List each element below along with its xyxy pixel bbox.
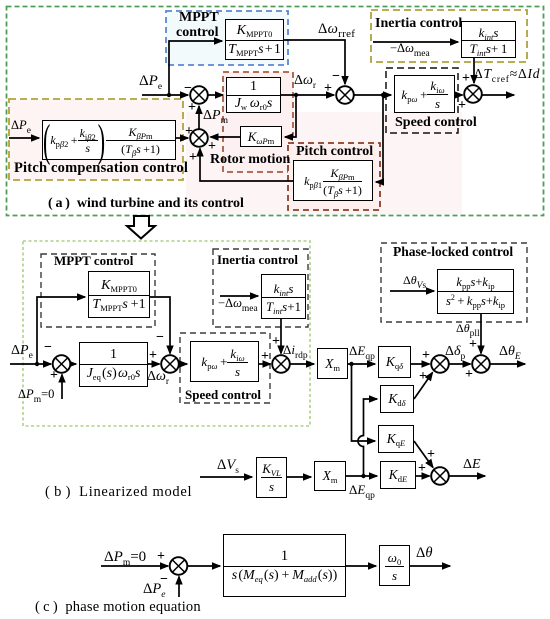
Inertia control dashed box (a) xyxy=(371,10,527,62)
wire ΔPe up into MPPT box (a) xyxy=(169,41,222,95)
sign + bottom into S2 xyxy=(189,151,197,165)
sign − ΔPe into T1 xyxy=(44,341,52,355)
box speed control kpω+kiω/s (b) xyxy=(190,341,259,382)
wire Xm upper output ΔEqp into Kqδ xyxy=(348,363,375,365)
box Xm upper (b) xyxy=(317,348,348,379)
box K_MPPT0/(T_MPPT s+1) (b) xyxy=(88,271,150,318)
outer light green dashed box section (b) xyxy=(23,241,310,426)
label Inertia control (a) xyxy=(375,17,462,31)
sign + ΔPm into T1 xyxy=(50,369,58,383)
wire ΔPe input (b) xyxy=(10,363,51,365)
junction dot Δωr branch to KωPm xyxy=(294,93,298,97)
wire T2 output into speed box (b) xyxy=(179,363,188,365)
box pitch compensation (kpβ2+kiβ2/s)KβPm/(Tβs+1) (a) xyxy=(42,120,176,160)
sum junction S2 xyxy=(190,129,208,147)
wire ΔPe input of pitch compensation xyxy=(9,137,39,139)
label ΔPm=0 (c) xyxy=(104,550,146,565)
label Speed control (b) xyxy=(185,388,261,401)
label MPPT control (a) line1 xyxy=(179,11,219,25)
label -Δω_mea (b) xyxy=(218,297,258,310)
wire Kdδ output diagonal into T4 xyxy=(414,373,433,400)
wire KVL output into Xm lower xyxy=(287,476,311,478)
sign + left into T4 xyxy=(422,349,430,363)
wire U1 output into M box (c) xyxy=(188,565,221,567)
sign + left into T3 xyxy=(261,350,269,364)
wire inertia (b) input xyxy=(220,295,258,297)
label Pitch compensation control (a) xyxy=(14,161,188,176)
sign + top into T3 xyxy=(272,335,280,349)
label MPPT control (b) xyxy=(54,254,133,267)
big hollow down arrow between sections xyxy=(127,216,155,239)
box K_MPPT0/(T_MPPT s+1) (a) xyxy=(225,19,284,60)
box 1/(Jw ωr0 s) (a) xyxy=(226,77,281,113)
sign + left into T2 xyxy=(149,349,157,363)
label Inertia control (b) xyxy=(217,253,298,266)
label Rotor motion (a) xyxy=(210,153,290,167)
wire S1 to rotor box xyxy=(208,94,224,96)
sum junction S3 xyxy=(336,86,354,104)
label Δω_r+ (a) xyxy=(294,74,316,88)
label Δθ (c) xyxy=(416,546,432,561)
sum junction T1 xyxy=(53,355,71,373)
wire KqE output diagonal into T6 xyxy=(414,441,433,468)
label -Δω_mea (a) xyxy=(390,42,430,55)
wire MPPT output Δωrref down into sum S3 xyxy=(284,40,345,84)
sign − top input S3 xyxy=(332,70,340,84)
box 1/(s(Meq(s)+Madd(s))) (c) xyxy=(223,534,346,597)
label ΔE (b) xyxy=(463,458,481,472)
wire pitch compensation output into S2 xyxy=(176,137,188,139)
junction dot ΔEqp lower branch xyxy=(361,474,365,478)
sign + top into S4 xyxy=(462,72,470,86)
wire ΔEqp lower up to Kdδ input with hop xyxy=(358,399,377,476)
sign + left into S2 xyxy=(185,125,193,139)
junction dot ΔEqp upper branch xyxy=(349,362,353,366)
wire ΔPm=0 input (c) xyxy=(101,565,168,567)
wire T6 output ΔE xyxy=(449,475,486,477)
sum junction T3 xyxy=(272,355,290,373)
sum junction S1 xyxy=(190,86,208,104)
junction dot ΔPe branch xyxy=(167,93,171,97)
wire T4 output Δδp into T5 xyxy=(449,363,471,365)
sign + lower into T4 xyxy=(419,370,427,384)
label Speed control (a) xyxy=(395,116,477,130)
box Xm lower (b) xyxy=(314,461,346,491)
box ω0/s (c) xyxy=(379,545,410,586)
wire inertia (a) output down into S4 xyxy=(473,58,475,83)
label ΔVs (b) xyxy=(217,458,239,473)
box k_int s/(T_int s+1) (b) xyxy=(261,274,306,319)
wire phase-locked output Δθpll down into T5 xyxy=(480,314,482,354)
wire Jeq output Δωr into T2 xyxy=(148,363,160,365)
box Kqδ (b) xyxy=(378,346,411,378)
sign − into U1 xyxy=(160,573,168,587)
box pitch control kpβ1 KβPm/(Tβ s+1) (a) xyxy=(293,160,373,201)
wire ΔPe main input to sum S1 xyxy=(142,94,188,96)
sum junction T6 xyxy=(431,467,449,485)
sign + into U1 xyxy=(157,550,165,564)
label ΔθVs (b) xyxy=(403,274,426,286)
wire ω box output Δθ (c) xyxy=(410,565,450,567)
wire T5 output ΔθE xyxy=(490,363,526,365)
wire Xm lower output ΔEqp into KdE xyxy=(346,475,377,477)
wire inertia (b) output down into T3 xyxy=(280,319,282,354)
label ΔPe (b) xyxy=(11,344,33,358)
wire Δωr down into KωPm input xyxy=(285,95,296,137)
wire phase-locked input ΔθVs xyxy=(390,290,434,292)
label Δθpll (b) xyxy=(456,322,480,334)
sign + right into S2 xyxy=(208,140,216,154)
sum junction T4 xyxy=(431,355,449,373)
wire M box output into ω box (c) xyxy=(346,565,376,567)
pink halo wash around rotor/pitch area xyxy=(186,112,462,214)
sign + left into S4 xyxy=(458,99,466,113)
box KqE (b) xyxy=(378,425,414,453)
sign + left into T6 xyxy=(418,462,426,476)
wire inertia control (a) input xyxy=(373,41,458,43)
label Δδp (b) xyxy=(445,345,465,359)
label ΔPm (a) xyxy=(203,109,228,123)
junction dot ΔPe branch (b) xyxy=(35,362,39,366)
Speed control dashed box (a) xyxy=(386,68,458,133)
caption (b) xyxy=(45,485,192,500)
label Phase-locked control (b) xyxy=(393,245,513,259)
label Δi_rdp (b) xyxy=(283,343,308,356)
wire ΔEqp upper down to KqE input with crossing xyxy=(352,364,376,441)
sign + upper into T6 xyxy=(427,448,435,462)
wire ΔPm=0 up into T1 xyxy=(61,375,63,400)
wire S2 output ΔPm up into S1 xyxy=(198,106,200,130)
label MPPT control (a) line2 xyxy=(176,26,219,40)
wire down into pitch control input xyxy=(376,95,383,182)
label ΔPm=0 (b) xyxy=(18,388,54,401)
label Δω_r (b) xyxy=(147,370,169,384)
wire T1 output into Jeq box xyxy=(71,363,77,365)
Rotor motion dashed box (a) xyxy=(223,72,293,172)
label ΔPe top (a) xyxy=(139,74,162,89)
sign + top into T5 xyxy=(469,338,477,352)
wire rotor box output Δωr to sum S3 xyxy=(281,94,334,96)
wire pitch control output up into S2 bottom xyxy=(200,149,293,182)
wire MPPT (b) output down into T2 xyxy=(150,297,170,354)
sign + left input S3 xyxy=(324,82,332,96)
Inertia control dashed box (b) xyxy=(213,249,308,327)
MPPT control dashed box (b) xyxy=(41,254,155,327)
sum junction U1 xyxy=(170,557,188,575)
box KdE (b) xyxy=(380,461,416,489)
box KωPm (a) xyxy=(240,126,282,147)
label ΔEqp upper (b) xyxy=(349,344,375,357)
sum junction T2 xyxy=(161,355,179,373)
wire speed (b) output into T3 xyxy=(259,363,271,365)
box speed control kpω+kiω/s (a) xyxy=(394,75,455,113)
MPPT control dashed box (a) xyxy=(166,11,288,65)
caption (a) xyxy=(48,197,244,211)
junction dot branch to pitch control xyxy=(381,93,385,97)
box Kdδ (b) xyxy=(380,385,414,413)
wire ΔVs input xyxy=(200,476,252,478)
wire T3 output Δirdp into Xm upper xyxy=(290,363,315,365)
label Δω_rref (a) xyxy=(318,22,355,37)
wire Kqδ output into T4 xyxy=(411,363,430,365)
wire KdE output into T6 xyxy=(416,475,430,477)
label ΔθE (b) xyxy=(499,345,521,359)
outer dashed box section (a) wind turbine and its control xyxy=(7,7,544,216)
caption (c) xyxy=(35,600,201,615)
wire ΔPe up into U1 (c) xyxy=(178,577,180,598)
label ΔTcref≈ΔId (a) xyxy=(474,67,540,81)
box 1/(Jeq(s)ωr0 s) (b) xyxy=(79,342,148,387)
sum junction S4 xyxy=(464,85,482,103)
label ΔPe pitch comp (a) xyxy=(11,119,31,132)
label ΔEqp lower (b) xyxy=(349,483,375,496)
wire S4 output ΔTcref xyxy=(483,94,515,96)
sign + left into T5 xyxy=(465,368,473,382)
sign + ΔPm into S1 xyxy=(188,101,196,115)
wire KωPm output into sum S2 xyxy=(211,136,241,138)
Pitch control dashed box (a) xyxy=(288,143,380,210)
wire speed control (a) output into S4 xyxy=(455,94,463,96)
label ΔPe (c) xyxy=(143,582,165,597)
Phase-locked control dashed box (b) xyxy=(381,243,527,322)
Speed control dashed box (b) xyxy=(180,333,270,403)
box phase-locked (kpp s+kip)/(s²+kpp s+kip) (b) xyxy=(437,269,514,314)
sum junction T5 xyxy=(472,355,490,373)
sign − top into T2 xyxy=(156,331,164,345)
box KVL/s (b) xyxy=(256,457,287,498)
sign − ΔPe into S1 xyxy=(184,82,192,96)
box k_int s/(T_int s+1) (a) xyxy=(461,21,516,58)
Pitch compensation control dashed box (a) xyxy=(9,99,183,180)
label Pitch control (a) xyxy=(296,145,373,159)
wire up into MPPT box (b) xyxy=(37,297,85,364)
wire S3 output into speed control box (a) xyxy=(354,94,392,96)
